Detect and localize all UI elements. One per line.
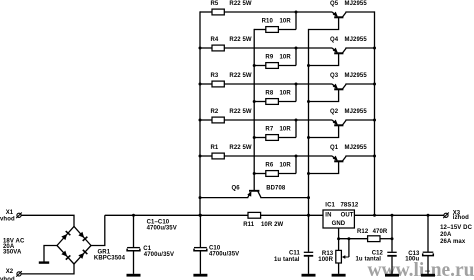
resistor R6 10R + riser wire — [254, 156, 296, 176]
svg-text:R22 5W: R22 5W — [229, 73, 252, 79]
collector output bus (right vertical) — [373, 11, 376, 216]
svg-text:1u tantal: 1u tantal — [356, 257, 382, 263]
svg-text:4700u/35V: 4700u/35V — [144, 252, 174, 258]
trimmer R13 100R + wiper + ground — [318, 239, 349, 276]
svg-text:R3: R3 — [211, 73, 219, 79]
svg-text:Q2: Q2 — [330, 109, 339, 115]
resistor R11 10R 2W (series sense) — [243, 212, 323, 228]
resistor R4 R22 5W (emitter ballast) + wire — [200, 37, 332, 51]
svg-text:vhod: vhod — [0, 217, 15, 223]
svg-text:26A max: 26A max — [440, 239, 466, 245]
transistor Q4 MJ2955 (PNP pass) — [309, 37, 375, 66]
output rating label — [440, 225, 472, 245]
capacitor C1 4700u/35V + ground — [127, 215, 175, 275]
svg-text:R10: R10 — [262, 19, 274, 25]
svg-text:1u tantal: 1u tantal — [274, 257, 300, 263]
transistor Q3 MJ2955 (PNP pass) — [309, 73, 375, 102]
svg-text:MJ2955: MJ2955 — [345, 109, 368, 115]
svg-text:MJ2955: MJ2955 — [345, 73, 368, 79]
input rating label — [3, 239, 25, 256]
wire bridge minus to ground — [44, 246, 57, 262]
svg-text:izhod: izhod — [453, 215, 469, 221]
svg-text:R4: R4 — [211, 37, 219, 43]
svg-text:R1: R1 — [211, 145, 219, 151]
svg-text:10R: 10R — [280, 19, 292, 25]
capacitor C12 1u tantal + ground — [356, 215, 400, 275]
svg-text:R22 5W: R22 5W — [229, 37, 252, 43]
svg-text:BD708: BD708 — [266, 185, 286, 191]
svg-text:10R: 10R — [280, 55, 292, 61]
svg-text:OUT: OUT — [341, 212, 354, 218]
svg-text:100u: 100u — [405, 257, 419, 263]
svg-text:R8: R8 — [265, 91, 273, 97]
resistor R3 R22 5W (emitter ballast) + wire — [200, 73, 332, 87]
output wire OUT to X3 — [354, 214, 444, 217]
resistor R7 10R + riser wire — [254, 120, 296, 140]
terminal X1 (input) — [0, 210, 22, 222]
svg-text:78S12: 78S12 — [341, 202, 359, 208]
svg-text:R22 5W: R22 5W — [229, 145, 252, 151]
label GR1 — [94, 250, 126, 262]
svg-text:R6: R6 — [265, 163, 273, 169]
raw DC + bus (left vertical, emitter rail) — [199, 11, 202, 216]
svg-text:R11: R11 — [243, 222, 255, 228]
svg-text:4700u/35V: 4700u/35V — [147, 225, 177, 231]
svg-text:R12: R12 — [357, 229, 369, 235]
wire bridge plus to + rail — [91, 215, 105, 245]
svg-text:10R: 10R — [280, 163, 292, 169]
terminal X3 (output) — [443, 210, 469, 221]
IC1 78S12 regulator + GND pin wire — [323, 202, 359, 238]
10R common bus to Q6 base — [253, 29, 256, 190]
transistor Q1 MJ2955 (PNP pass) — [309, 145, 375, 174]
watermark www.li-ne.ru — [368, 259, 474, 280]
svg-text:470R: 470R — [373, 229, 388, 235]
svg-text:R9: R9 — [265, 55, 273, 61]
resistor R1 R22 5W (emitter ballast) + wire — [200, 145, 332, 159]
svg-text:4700u/35V: 4700u/35V — [209, 251, 239, 257]
svg-text:R22 5W: R22 5W — [229, 1, 252, 7]
transistor Q5 MJ2955 (PNP pass) — [309, 1, 375, 30]
base bus / IC input net (vertical) — [307, 29, 310, 217]
svg-text:12–15V DC: 12–15V DC — [440, 225, 472, 231]
capacitor C11 1u tantal + ground — [274, 215, 316, 275]
svg-text:X1: X1 — [6, 210, 14, 216]
transistor Q6 BD708 (driver) + emitter/collector wires — [200, 185, 309, 197]
svg-text:R5: R5 — [211, 1, 219, 7]
svg-text:IC1: IC1 — [325, 202, 335, 208]
svg-text:Q6: Q6 — [232, 186, 241, 192]
terminal X2 (input) — [0, 269, 22, 280]
wire X2 to bridge AC2 — [21, 264, 74, 274]
svg-text:MJ2955: MJ2955 — [345, 37, 368, 43]
resistor R5 R22 5W (emitter ballast) + wire — [200, 1, 332, 15]
resistor R9 10R + riser wire — [254, 48, 296, 68]
bridge rectifier GR1 KBPC3504 (diamond, 4 diodes) — [57, 226, 91, 264]
svg-text:10R: 10R — [280, 127, 292, 133]
svg-text:R7: R7 — [265, 127, 273, 133]
svg-text:MJ2955: MJ2955 — [345, 1, 368, 7]
resistor R12 470R — [337, 229, 393, 242]
svg-text:www.li-ne.ru: www.li-ne.ru — [368, 259, 474, 280]
svg-text:R2: R2 — [211, 109, 219, 115]
resistor R2 R22 5W (emitter ballast) + wire — [200, 109, 332, 123]
svg-text:C12: C12 — [372, 250, 384, 256]
svg-text:Q4: Q4 — [330, 37, 339, 43]
wire X1 to bridge AC1 — [21, 215, 74, 227]
capacitor C10 4700u/35V + ground — [193, 215, 239, 275]
svg-text:Q3: Q3 — [330, 73, 339, 79]
svg-text:C11: C11 — [289, 251, 301, 257]
svg-text:IN: IN — [325, 212, 331, 218]
svg-text:Q5: Q5 — [330, 1, 339, 7]
svg-text:20A: 20A — [440, 232, 452, 238]
resistor R10 10R + riser wire — [254, 12, 296, 32]
svg-text:X2: X2 — [6, 269, 14, 275]
svg-text:R22 5W: R22 5W — [229, 109, 252, 115]
label C1-C10 — [147, 220, 177, 232]
svg-text:GND: GND — [332, 221, 346, 227]
svg-text:KBPC3504: KBPC3504 — [94, 256, 126, 262]
ground symbol (bridge minus) — [39, 261, 49, 263]
svg-text:Q1: Q1 — [330, 145, 339, 151]
resistor R8 10R + riser wire — [254, 84, 296, 104]
capacitor C13 100u (polarized) + ground — [405, 215, 435, 275]
svg-text:100R: 100R — [318, 257, 333, 263]
+ raw DC rail — [105, 214, 248, 217]
svg-text:MJ2955: MJ2955 — [345, 145, 368, 151]
svg-text:10R: 10R — [280, 91, 292, 97]
svg-text:350VA: 350VA — [3, 249, 22, 255]
transistor Q2 MJ2955 (PNP pass) — [309, 109, 375, 138]
svg-text:10R 2W: 10R 2W — [261, 222, 284, 228]
